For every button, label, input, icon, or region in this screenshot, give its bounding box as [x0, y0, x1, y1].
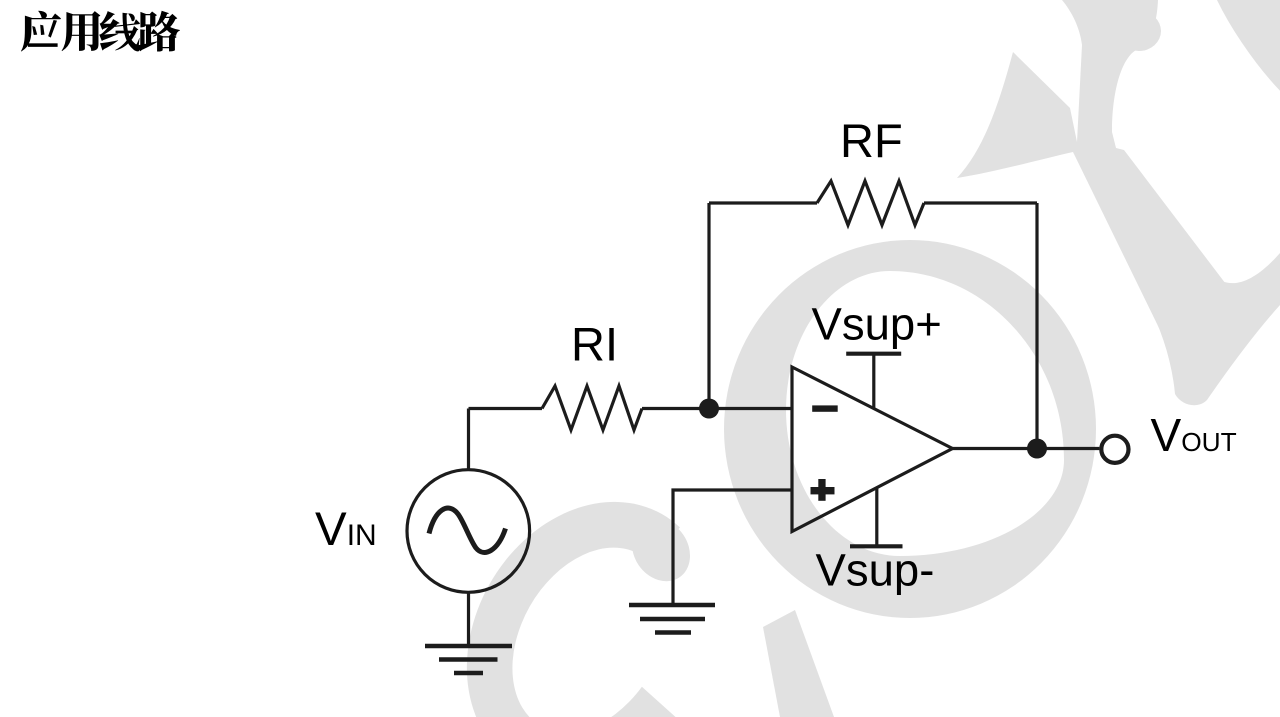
wire: vin bottom vertical: [467, 593, 470, 646]
sine wave symbol: [429, 508, 506, 552]
wire: vin top vertical: [467, 409, 470, 472]
resistor RF zigzag: [817, 181, 924, 225]
wire: VIN to RI: [469, 407, 543, 410]
plus sign (non-inverting input): [811, 479, 835, 501]
ground symbol (VIN): [425, 646, 512, 673]
wire: non-inverting input: [673, 490, 792, 605]
resistor RI zigzag: [542, 386, 642, 430]
svg-text:RI: RI: [571, 317, 618, 370]
watermark r foot serif: [1146, 253, 1280, 405]
watermark letter r body (beak, neck, ball, stem): [957, 0, 1235, 330]
watermark second-line stem fragment: [763, 610, 834, 717]
wire: feedback left vertical: [707, 203, 710, 409]
node B: output junction: [1027, 439, 1047, 459]
minus sign (inverting input): [812, 405, 838, 411]
power rail Vsup+: [846, 354, 901, 409]
source VIN circle: [407, 470, 530, 593]
svg-text:Vsup-: Vsup-: [816, 544, 935, 595]
watermark letter o: [724, 240, 1096, 618]
watermark letter e: [1142, 0, 1280, 193]
wire: output: [953, 447, 1100, 450]
svg-text:VOUT: VOUT: [1151, 409, 1237, 461]
svg-text:VIN: VIN: [315, 503, 377, 556]
power rail Vsup-: [850, 487, 903, 546]
wire: RI to inverting input: [642, 407, 792, 410]
op-amp U1 triangle: [792, 367, 953, 532]
svg-text:Vsup+: Vsup+: [812, 299, 942, 350]
title 应用线路: [21, 11, 180, 52]
wire: feedback top-left segment: [709, 201, 817, 204]
watermark letter C: [467, 502, 680, 717]
wire: feedback top-right segment: [924, 201, 1037, 204]
wire: feedback right vertical: [1035, 203, 1038, 449]
svg-text:RF: RF: [840, 114, 903, 167]
terminal VOUT open circle: [1101, 436, 1128, 463]
node A: inverting input junction: [699, 399, 719, 419]
ground symbol (non-inverting input): [629, 605, 715, 633]
